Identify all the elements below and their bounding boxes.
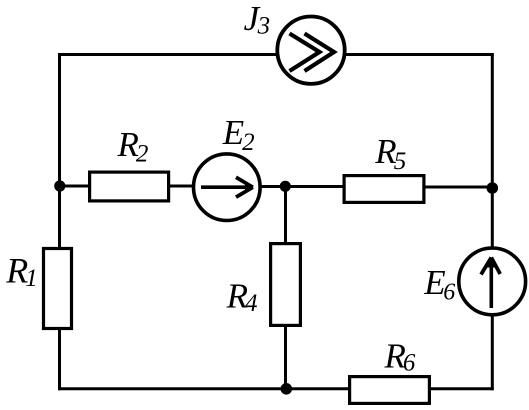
node A (left junction) [54, 180, 65, 191]
wire left vertical upper [58, 53, 61, 248]
wire R5 to node C [424, 186, 492, 189]
voltage source E2 [194, 113, 261, 221]
wire bottom right R6 to corner [430, 387, 494, 390]
wire top-right horizontal [345, 53, 494, 56]
wire E2 to node B [260, 185, 286, 188]
current source J3 [244, 0, 345, 84]
resistor R2 [90, 125, 169, 201]
resistor R4 [226, 244, 301, 326]
resistor R5 [344, 132, 424, 203]
wire middle row node A to R2 [60, 185, 90, 188]
node C (right junction) [487, 182, 499, 194]
resistor R6 [350, 336, 430, 403]
wire left vertical lower [58, 329, 61, 390]
wire bottom left [58, 387, 349, 390]
wire R4 to node D [284, 326, 287, 389]
resistor R1 [5, 249, 71, 329]
wire top-left horizontal [58, 53, 277, 56]
node B (middle junction) [280, 181, 291, 192]
wire right vertical lower [491, 315, 494, 390]
wire right vertical upper [491, 53, 494, 247]
wire node B down to R4 [284, 186, 287, 243]
wire R2 to E2 [169, 185, 194, 188]
node D (bottom junction) [281, 383, 293, 395]
wire node B to R5 [286, 185, 345, 188]
voltage source E6 [423, 248, 525, 315]
